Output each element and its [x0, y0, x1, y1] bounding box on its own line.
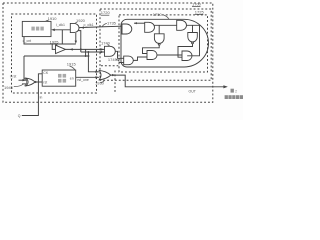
svg-text:rst_one: rst_one [77, 78, 89, 82]
svg-text:1910: 1910 [48, 16, 58, 21]
svg-text:1700: 1700 [192, 2, 202, 7]
svg-text:en: en [70, 76, 74, 80]
svg-text:1915: 1915 [67, 62, 77, 67]
svg-text:2: 2 [235, 89, 237, 93]
svg-text:1735: 1735 [107, 21, 117, 26]
svg-text:CK: CK [43, 71, 49, 75]
svg-text:o_clk1: o_clk1 [84, 23, 94, 27]
svg-text:i_clk1: i_clk1 [56, 23, 65, 27]
svg-text:in: in [40, 95, 43, 99]
svg-text:o_cnt: o_cnt [23, 39, 32, 43]
svg-text:1740: 1740 [101, 40, 111, 45]
svg-text:1720: 1720 [101, 10, 111, 15]
svg-text:1945: 1945 [4, 85, 14, 90]
svg-text:Q: Q [18, 114, 21, 118]
svg-text:rst: rst [43, 81, 47, 85]
svg-text:1750: 1750 [153, 12, 163, 17]
svg-text:i_rst: i_rst [10, 75, 17, 79]
svg-text:OUT: OUT [189, 90, 197, 94]
svg-text:1725: 1725 [195, 10, 205, 15]
